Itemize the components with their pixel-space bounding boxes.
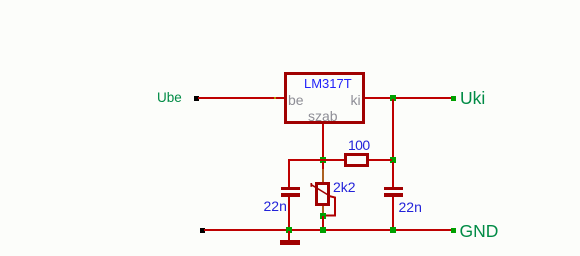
label LM317T	[304, 77, 352, 90]
pin name szab	[308, 109, 338, 123]
wire szab vertical	[322, 124, 324, 162]
junction rail C1	[286, 227, 292, 233]
capacitor C2 top plate	[384, 187, 403, 190]
IC U1 LM317T regulator body	[284, 72, 365, 124]
node Ube label	[157, 91, 182, 105]
node GND label	[460, 223, 499, 241]
wire ground stub	[288, 231, 290, 240]
label 100	[348, 138, 370, 152]
pin Uki (green terminal square)	[451, 96, 456, 101]
wire C2 top (right cap)	[392, 162, 394, 187]
pin name ki	[351, 93, 361, 107]
pin name be	[288, 93, 304, 107]
junction resistor right	[390, 157, 396, 163]
label 22n right	[399, 200, 422, 214]
pin-end dot be	[274, 97, 276, 99]
wire C2 bottom to rail	[392, 197, 394, 231]
wire adj horizontal right segment	[369, 159, 392, 161]
wire ki to Uki pin	[365, 97, 452, 99]
wire pot to rail	[322, 216, 324, 230]
ground symbol bar	[280, 240, 300, 245]
capacitor C1 top plate	[281, 187, 300, 190]
label 2k2	[333, 180, 356, 194]
junction ki-node	[390, 95, 396, 101]
pin GND (green terminal square)	[451, 228, 456, 233]
potentiometer P1 top pin stub (orange)	[322, 169, 324, 182]
junction wiper return	[320, 213, 326, 219]
junction szab-node	[320, 157, 326, 163]
wire Ube to be pin	[198, 97, 285, 99]
pin GND-left (black terminal square)	[200, 228, 205, 233]
capacitor C1 bottom plate	[281, 193, 300, 197]
wire szab to pot	[322, 162, 324, 169]
junction rail pot	[320, 227, 326, 233]
pin Ube (black terminal square)	[194, 96, 199, 101]
wire C1 bottom to rail	[288, 197, 290, 231]
capacitor C2 bottom plate	[384, 193, 403, 197]
potentiometer P1 bottom pin stub (orange)	[322, 206, 324, 217]
resistor R1 body	[344, 153, 369, 167]
wire adj horizontal left segment	[288, 159, 344, 161]
wire output vertical down	[392, 99, 394, 187]
wire left branch vertical	[288, 159, 290, 187]
junction rail C2	[390, 227, 396, 233]
label 22n left	[264, 199, 287, 213]
node Uki label	[460, 90, 485, 108]
wire ground rail	[204, 229, 452, 231]
potentiometer P1 body	[315, 182, 330, 206]
